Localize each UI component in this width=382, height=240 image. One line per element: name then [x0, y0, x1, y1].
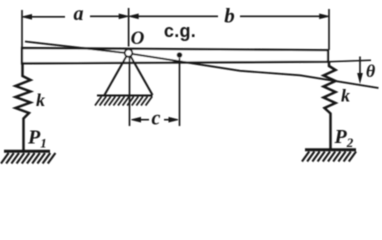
- svg-text:θ: θ: [366, 61, 376, 81]
- dimension line b: right segment + arrow: [240, 14, 329, 18]
- left ground hatching: [1, 153, 55, 164]
- right spring k: [324, 62, 336, 150]
- dimension line b: left arrow at O: [129, 14, 218, 18]
- extension line right (dim b): [328, 9, 330, 50]
- beam (bar): [22, 48, 328, 63]
- svg-text:b: b: [224, 4, 235, 28]
- theta arrow: [358, 57, 362, 83]
- svg-text:a: a: [74, 3, 84, 25]
- extension line center at O: [128, 8, 130, 47]
- svg-text:c: c: [152, 108, 161, 130]
- right ground hatching: [302, 152, 356, 162]
- pivot hinge circle O: [125, 49, 133, 57]
- pivot vertical line (extension of c): [129, 57, 131, 126]
- c.g. dot: [177, 52, 183, 58]
- left ground line: [4, 150, 50, 153]
- svg-text:k: k: [341, 86, 350, 106]
- dimension c: left arrow: [132, 118, 150, 122]
- right ground line: [305, 148, 356, 151]
- left spring k: [16, 63, 31, 150]
- dimension line a: right segment + arrow at O: [90, 14, 128, 18]
- dimension c: right arrow: [164, 118, 178, 122]
- dimension line a: left arrow: [23, 15, 66, 19]
- extension line left (dim a): [21, 10, 23, 48]
- tilted line (rotated position, angle theta): [25, 42, 379, 89]
- pivot triangle legs: [105, 56, 153, 95]
- c.g. vertical line (extension of c): [179, 58, 181, 126]
- svg-text:k: k: [36, 90, 45, 110]
- svg-text:c.g.: c.g.: [164, 21, 196, 41]
- pivot ground hatching: [95, 97, 152, 106]
- theta reference line (extension of beam bottom): [328, 60, 371, 62]
- pivot ground line: [97, 95, 153, 97]
- svg-text:O: O: [131, 28, 145, 49]
